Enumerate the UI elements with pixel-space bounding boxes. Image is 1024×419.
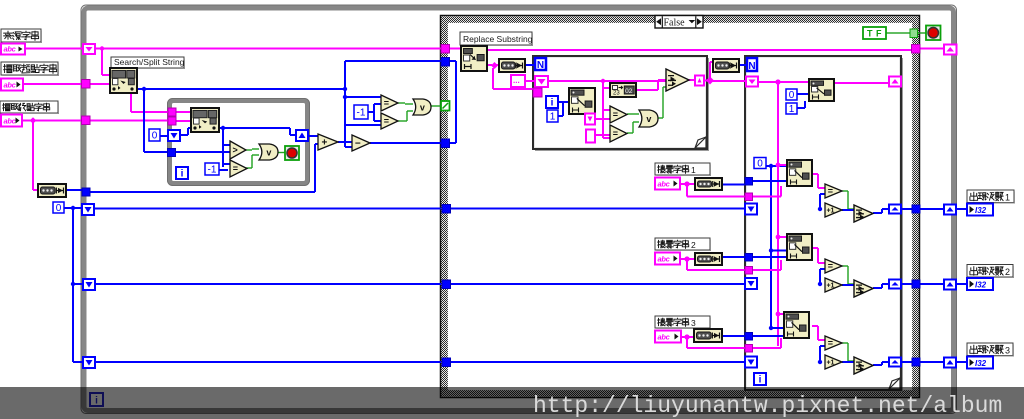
svg-text:−: −: [355, 139, 361, 150]
svg-text:abc: abc: [4, 81, 17, 90]
svg-text:3: 3: [691, 318, 696, 328]
svg-text:http://liuyunantw.pixnet.net/a: http://liuyunantw.pixnet.net/album: [533, 393, 1002, 419]
svg-text:2: 2: [1005, 267, 1010, 277]
svg-text:-1: -1: [357, 108, 366, 119]
svg-text:i: i: [759, 375, 762, 386]
svg-text:i: i: [181, 169, 184, 180]
svg-text:=: =: [384, 116, 389, 126]
svg-text:+1: +1: [826, 208, 834, 215]
svg-text:=: =: [613, 110, 618, 120]
svg-text:1: 1: [691, 165, 696, 175]
svg-text:N: N: [748, 61, 755, 72]
svg-text:F: F: [876, 29, 882, 39]
svg-text:I32: I32: [975, 206, 987, 215]
svg-text:1: 1: [550, 112, 556, 123]
svg-text:i: i: [551, 98, 554, 109]
svg-text:=: =: [828, 186, 833, 196]
svg-text:+: +: [321, 138, 327, 149]
svg-text:=: =: [613, 129, 618, 139]
svg-text:I32: I32: [975, 281, 987, 290]
svg-text:=: =: [828, 261, 833, 271]
svg-text:23: 23: [613, 91, 620, 97]
svg-text:abc: abc: [658, 333, 671, 342]
svg-text:T: T: [867, 29, 873, 39]
svg-text:0: 0: [757, 159, 763, 170]
svg-text:2: 2: [691, 240, 696, 250]
svg-text:abc: abc: [658, 255, 671, 264]
svg-text:I32: I32: [975, 359, 987, 368]
svg-text:abc: abc: [658, 180, 671, 189]
svg-text:...: ...: [513, 76, 520, 85]
svg-text:1: 1: [789, 104, 795, 115]
svg-text:=: =: [233, 164, 238, 174]
svg-text:=: =: [384, 98, 389, 108]
svg-text:02: 02: [625, 88, 633, 95]
svg-text:0: 0: [56, 203, 62, 214]
svg-text:False: False: [663, 17, 685, 28]
svg-text:0: 0: [789, 90, 795, 101]
svg-text:v: v: [266, 147, 271, 157]
svg-text:-1: -1: [208, 165, 217, 176]
svg-text:Replace Substring: Replace Substring: [463, 34, 533, 44]
svg-text:3: 3: [1005, 346, 1010, 356]
svg-text:>: >: [232, 145, 237, 155]
svg-text:N: N: [537, 60, 544, 71]
svg-text:abc: abc: [4, 45, 17, 54]
svg-text:=: =: [828, 338, 833, 348]
svg-text:v: v: [646, 114, 651, 124]
svg-text:0: 0: [152, 131, 158, 142]
svg-text:v: v: [420, 102, 425, 112]
svg-text:Search/Split String: Search/Split String: [114, 57, 185, 67]
svg-text:+1: +1: [826, 283, 834, 290]
svg-text:+1: +1: [826, 360, 834, 367]
svg-text:abc: abc: [4, 117, 17, 126]
svg-text:1: 1: [1005, 193, 1010, 203]
